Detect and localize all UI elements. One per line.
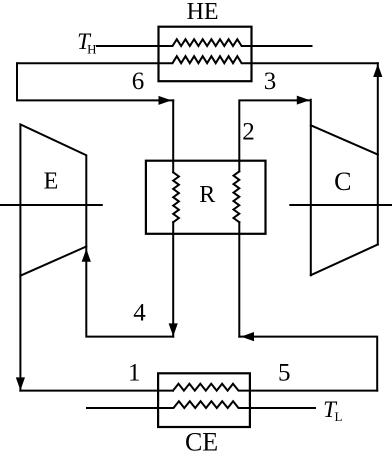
arrow into compressor inlet (2) — [297, 96, 310, 105]
wire 6: HE outlet down and right into regenerator — [17, 63, 173, 100]
compressor C bottom edge — [311, 245, 378, 276]
wire 4: regenerator left branch down to corner — [172, 222, 174, 336]
svg-text:R: R — [199, 182, 215, 208]
arrow down at expander outlet (1) — [16, 377, 25, 390]
CE cold-source zigzag (T_L stream) — [87, 401, 315, 408]
svg-text:2: 2 — [242, 119, 255, 146]
wire 4: corner left and up into expander — [86, 247, 173, 337]
compressor C body left edge with inlet stub — [310, 100, 312, 275]
arrow up into expander (4) — [82, 249, 91, 262]
svg-text:E: E — [44, 169, 59, 195]
cold exchanger CE box — [158, 373, 250, 427]
wire: regenerator right branch vertical (5 -> 2) — [238, 222, 240, 336]
arrow up into HE line (3) — [373, 64, 382, 77]
regenerator R left zigzag — [173, 172, 179, 222]
svg-text:HE: HE — [187, 0, 219, 25]
svg-text:1: 1 — [128, 360, 141, 387]
svg-text:CE: CE — [185, 428, 218, 457]
HE cold-side zigzag (cycle stream 3-6) — [17, 56, 378, 63]
CE cycle-side zigzag (stream 1-5) — [173, 384, 377, 391]
wire 2: regenerator right branch up and right into compressor — [239, 100, 309, 171]
svg-text:H: H — [87, 42, 96, 57]
svg-text:C: C — [334, 167, 351, 196]
svg-text:5: 5 — [278, 359, 291, 386]
svg-text:L: L — [335, 409, 343, 424]
wire 1: expander outlet down — [19, 276, 21, 391]
compressor C top edge — [311, 125, 378, 154]
wire 1: to cold exchanger CE — [20, 390, 173, 392]
wire 3: compressor outlet up to HE line — [377, 63, 379, 244]
svg-text:4: 4 — [133, 300, 146, 327]
wire: regenerator left branch vertical (6 -> 4) — [172, 100, 174, 172]
expander E body — [20, 124, 86, 275]
HE hot-side zigzag (T_H stream) — [97, 39, 312, 46]
svg-text:6: 6 — [132, 68, 145, 95]
compressor C shaft — [290, 204, 392, 206]
arrow into regenerator left top (6) — [159, 96, 172, 105]
arrow left into regenerator right bottom (5) — [241, 332, 254, 341]
regenerator R right zigzag — [234, 171, 240, 222]
wire 5: CE outlet up and left into regenerator right branch — [239, 337, 377, 391]
expander E shaft — [0, 204, 102, 206]
regenerator R box — [146, 161, 266, 234]
arrow down at regenerator left bottom (4) — [169, 323, 178, 336]
heat exchanger HE box — [159, 27, 252, 81]
svg-text:3: 3 — [264, 68, 277, 95]
